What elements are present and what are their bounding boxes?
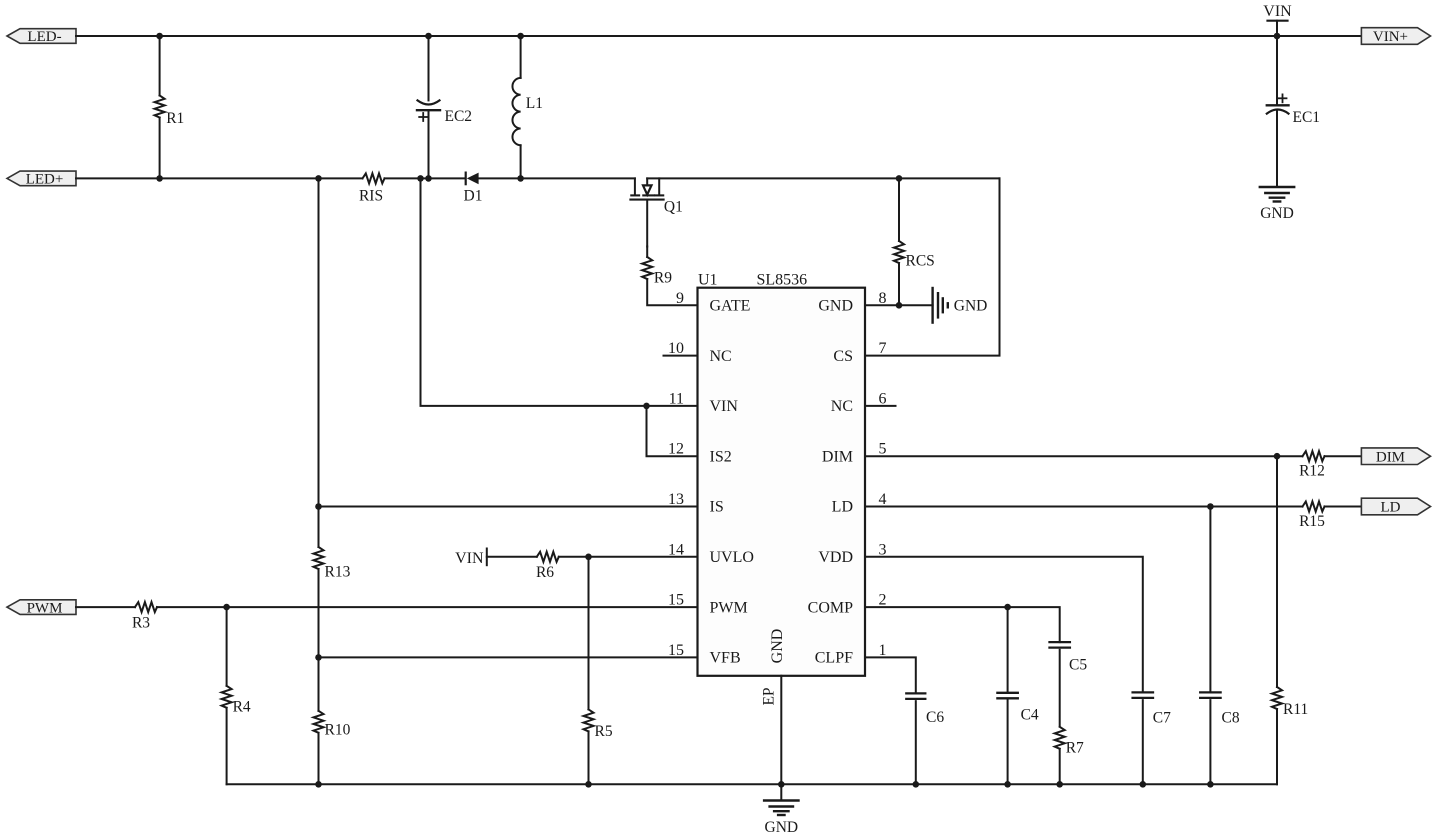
- svg-text:R13: R13: [325, 564, 351, 581]
- junction bus / C4: [1004, 781, 1011, 788]
- svg-text:C5: C5: [1069, 657, 1087, 674]
- junction PWM / R4: [223, 604, 230, 611]
- svg-text:LED+: LED+: [26, 172, 64, 188]
- svg-text:GND: GND: [954, 297, 988, 314]
- svg-text:DIM: DIM: [1376, 449, 1405, 465]
- ground GND (pin 8, sideways): [933, 288, 988, 323]
- pin 6 NC (right): [831, 390, 887, 415]
- junction bus / EP: [778, 781, 785, 788]
- svg-text:6: 6: [879, 390, 887, 407]
- svg-text:14: 14: [668, 541, 684, 558]
- wire EP pad: [780, 676, 782, 785]
- svg-text:CS: CS: [833, 348, 853, 365]
- svg-text:12: 12: [668, 441, 684, 458]
- svg-text:7: 7: [879, 340, 887, 357]
- svg-text:VIN: VIN: [1263, 3, 1292, 20]
- wire CLPF pin to C6: [865, 657, 916, 693]
- capacitor EC2: [417, 36, 440, 178]
- svg-text:CLPF: CLPF: [815, 650, 853, 667]
- power port VIN (top): [1263, 3, 1292, 36]
- svg-text:NC: NC: [710, 348, 732, 365]
- wire VDD pin to C7: [865, 557, 1143, 693]
- svg-text:13: 13: [668, 491, 684, 508]
- svg-text:VIN+: VIN+: [1373, 29, 1408, 45]
- resistor R3: [135, 602, 227, 612]
- junction top rail / VIN: [1274, 33, 1281, 40]
- junction switch rail / RCS: [896, 175, 903, 182]
- junction UVLO / R5: [585, 554, 592, 561]
- svg-text:D1: D1: [464, 188, 483, 205]
- wire ground bus: [227, 783, 1277, 785]
- svg-text:R9: R9: [654, 270, 672, 287]
- inductor L1: [512, 36, 520, 178]
- capacitor EC1: [1267, 36, 1289, 187]
- resistor R1: [155, 36, 165, 178]
- resistor R6: [537, 552, 589, 562]
- svg-text:VDD: VDD: [818, 549, 853, 566]
- svg-text:1: 1: [879, 642, 887, 659]
- svg-text:C4: C4: [1021, 707, 1039, 724]
- power port VIN (UVLO branch): [455, 549, 537, 568]
- junction switch rail / vertical to VIN pin: [417, 175, 424, 182]
- wire L1 to Q1 drain: [521, 177, 635, 179]
- svg-text:PWM: PWM: [27, 600, 63, 616]
- capacitor C4: [997, 607, 1017, 784]
- svg-text:RIS: RIS: [359, 188, 383, 205]
- svg-text:GATE: GATE: [710, 298, 751, 315]
- wire PWM pin: [227, 606, 698, 608]
- svg-text:R11: R11: [1283, 701, 1308, 718]
- pin 6 NC stub: [865, 405, 896, 407]
- pin 2 COMP (right): [808, 592, 887, 617]
- svg-text:5: 5: [879, 441, 887, 458]
- pin 7 CS (right): [833, 340, 886, 365]
- port VIN+: [1361, 28, 1430, 46]
- svg-text:Q1: Q1: [664, 199, 683, 216]
- junction top rail / R1: [156, 33, 163, 40]
- wire RIS to D1: [385, 177, 466, 179]
- svg-text:GND: GND: [765, 819, 799, 836]
- capacitor C7: [1133, 692, 1153, 784]
- svg-text:2: 2: [879, 592, 887, 609]
- svg-text:GND: GND: [1260, 205, 1294, 222]
- wire COMP to C5 branch: [1008, 607, 1060, 642]
- port LED-: [7, 29, 76, 46]
- pin 15 PWM (left): [668, 592, 748, 617]
- svg-text:EP: EP: [761, 687, 778, 705]
- wire switch rail right of Q1: [647, 177, 999, 179]
- junction LD / C8: [1207, 503, 1214, 510]
- pin 15 VFB (left): [668, 642, 741, 667]
- junction LED+ / R1: [156, 175, 163, 182]
- pin 10 NC stub: [664, 355, 698, 357]
- junction VIN/IS2 tie: [643, 403, 650, 410]
- junction bus / C7: [1140, 781, 1147, 788]
- capacitor C5: [1050, 642, 1070, 726]
- pin 5 DIM (right): [822, 441, 887, 466]
- resistor R11: [1272, 456, 1282, 784]
- svg-text:IS2: IS2: [710, 448, 732, 465]
- svg-text:3: 3: [879, 541, 887, 558]
- pin 14 UVLO (left): [668, 541, 754, 566]
- svg-text:RCS: RCS: [906, 253, 935, 270]
- resistor R9: [642, 247, 697, 306]
- svg-text:15: 15: [668, 592, 684, 609]
- svg-text:10: 10: [668, 340, 684, 357]
- pin 4 LD (right): [832, 491, 887, 516]
- wire IS2 tie-down: [647, 406, 698, 456]
- svg-text:PWM: PWM: [710, 599, 748, 616]
- port LD: [1361, 498, 1430, 516]
- resistor R10: [314, 657, 324, 784]
- svg-text:C6: C6: [926, 709, 944, 726]
- wire CS sense down: [865, 178, 1000, 355]
- junction switch rail / L1: [517, 175, 524, 182]
- junction LED+ / R13: [315, 175, 322, 182]
- svg-text:VIN: VIN: [455, 550, 484, 567]
- svg-text:LED-: LED-: [27, 29, 61, 45]
- wire DIM pin net: [865, 455, 1303, 457]
- svg-text:R3: R3: [132, 615, 150, 632]
- svg-text:R10: R10: [325, 722, 351, 739]
- svg-text:NC: NC: [831, 398, 853, 415]
- svg-text:15: 15: [668, 642, 684, 659]
- resistor RCS: [894, 178, 904, 305]
- svg-text:C8: C8: [1222, 710, 1240, 727]
- resistor RIS: [363, 173, 385, 183]
- junction DIM / R11: [1274, 453, 1281, 460]
- wire IS pin: [319, 506, 698, 508]
- svg-text:EC2: EC2: [445, 108, 473, 125]
- svg-text:R1: R1: [166, 110, 184, 127]
- wire UVLO pin: [589, 556, 698, 558]
- junction COMP / C4: [1004, 604, 1011, 611]
- pin 12 IS2 (left): [668, 441, 732, 466]
- svg-text:R6: R6: [536, 564, 554, 581]
- wire C8 branch: [1209, 507, 1211, 693]
- junction bus / R10: [315, 781, 322, 788]
- wire PWM to R3: [76, 606, 135, 608]
- svg-text:DIM: DIM: [822, 448, 853, 465]
- svg-text:C7: C7: [1153, 710, 1171, 727]
- junction top rail / EC2: [425, 33, 432, 40]
- svg-text:8: 8: [879, 290, 887, 307]
- wire R13 vertical net: [318, 178, 320, 547]
- resistor R4: [222, 607, 232, 784]
- port DIM: [1361, 448, 1430, 466]
- svg-text:GND: GND: [818, 298, 853, 315]
- capacitor C8: [1200, 692, 1220, 784]
- svg-text:9: 9: [676, 290, 684, 307]
- junction bus / C6: [913, 781, 920, 788]
- svg-text:COMP: COMP: [808, 599, 853, 616]
- svg-text:R5: R5: [595, 723, 613, 740]
- svg-text:R12: R12: [1299, 463, 1325, 480]
- svg-text:11: 11: [669, 390, 684, 407]
- pin 8 GND (right): [818, 290, 886, 315]
- wire net LED- top rail: [76, 35, 1361, 37]
- junction bus / R5: [585, 781, 592, 788]
- junction top rail / L1: [517, 33, 524, 40]
- port LED+: [7, 171, 76, 188]
- port PWM: [7, 600, 76, 617]
- junction VFB tap: [315, 654, 322, 661]
- wire net LED+ / switch rail left: [76, 177, 363, 179]
- wire LD pin net: [865, 506, 1303, 508]
- pin 13 IS (left): [668, 491, 724, 516]
- svg-text:SL8536: SL8536: [757, 272, 808, 289]
- pin 9 GATE (left): [676, 290, 750, 315]
- svg-text:VFB: VFB: [710, 650, 741, 667]
- transistor Q1: [630, 178, 663, 246]
- resistor R13: [314, 547, 324, 657]
- resistor R15: [1303, 502, 1362, 512]
- ground GND (below EC1): [1260, 187, 1294, 222]
- pin 11 VIN (left): [669, 390, 739, 415]
- resistor R5: [584, 557, 594, 785]
- wire VIN pin stub: [647, 405, 698, 407]
- pin 3 VDD (right): [818, 541, 886, 566]
- op-amp U1 SL8536 body: [698, 288, 866, 676]
- svg-text:R4: R4: [233, 699, 251, 716]
- svg-text:L1: L1: [526, 95, 543, 112]
- svg-text:LD: LD: [1380, 500, 1400, 516]
- junction IS tap: [315, 503, 322, 510]
- pin 1 CLPF (right): [815, 642, 887, 667]
- capacitor C6: [906, 693, 925, 784]
- svg-text:LD: LD: [832, 499, 853, 516]
- svg-text:IS: IS: [710, 499, 724, 516]
- svg-text:VIN: VIN: [710, 398, 739, 415]
- wire GND pin 8 to ground: [865, 304, 933, 306]
- svg-text:GND: GND: [769, 629, 786, 664]
- svg-text:4: 4: [879, 491, 887, 508]
- resistor R12: [1303, 451, 1362, 461]
- svg-text:U1: U1: [698, 272, 718, 289]
- ground GND (bottom): [764, 784, 798, 836]
- junction RCS / GND pin: [896, 302, 903, 309]
- wire VFB pin: [319, 656, 698, 658]
- junction switch rail / EC2: [425, 175, 432, 182]
- svg-text:R7: R7: [1066, 740, 1084, 757]
- wire COMP pin net: [865, 606, 1008, 608]
- resistor R7: [1055, 727, 1065, 785]
- wire vertical node to VIN pin: [421, 178, 647, 406]
- diode D1: [466, 173, 521, 185]
- svg-text:UVLO: UVLO: [710, 549, 754, 566]
- junction bus / C8: [1207, 781, 1214, 788]
- pin 10 NC (left): [668, 340, 732, 365]
- svg-text:R15: R15: [1299, 513, 1325, 530]
- svg-text:EC1: EC1: [1293, 109, 1321, 126]
- junction bus / R7: [1056, 781, 1063, 788]
